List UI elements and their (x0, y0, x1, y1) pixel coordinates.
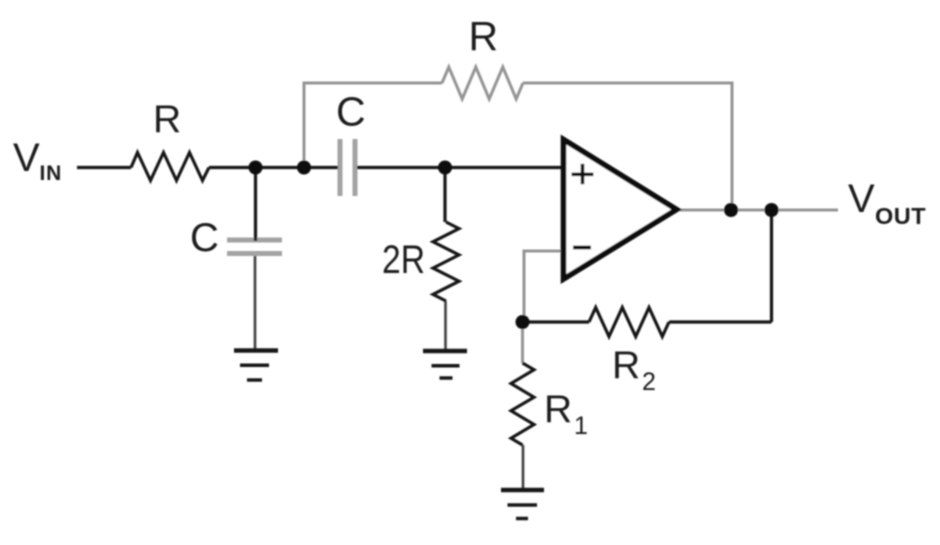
svg-text:R: R (544, 388, 572, 431)
svg-text:V: V (848, 177, 875, 221)
svg-text:V: V (13, 136, 40, 180)
svg-text:C: C (190, 216, 219, 260)
svg-text:R: R (153, 98, 181, 141)
svg-text:1: 1 (574, 412, 588, 440)
svg-text:IN: IN (40, 162, 63, 185)
svg-text:R: R (612, 344, 640, 387)
svg-text:2: 2 (642, 368, 656, 396)
svg-text:R: R (469, 13, 499, 59)
svg-text:OUT: OUT (875, 203, 926, 229)
svg-text:2R: 2R (382, 238, 425, 282)
svg-text:C: C (336, 89, 366, 135)
